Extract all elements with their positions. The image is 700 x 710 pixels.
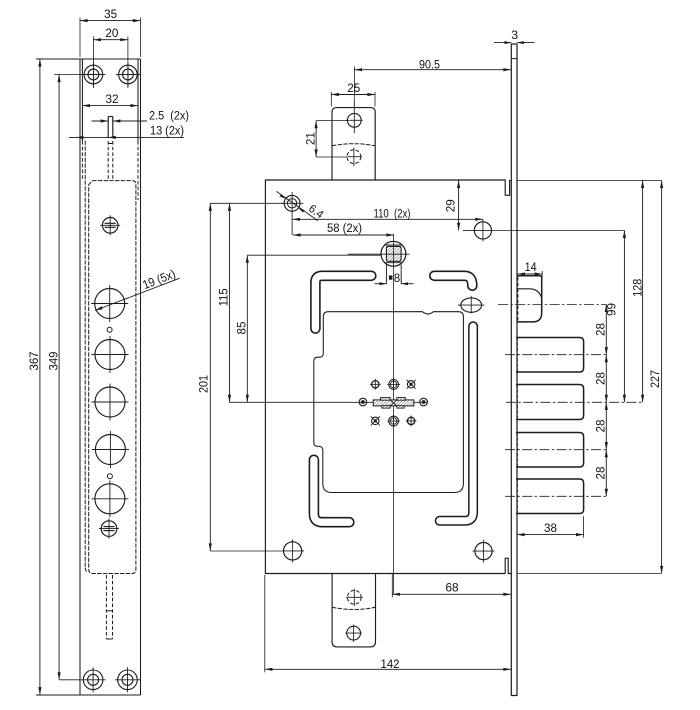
svg-text:28: 28 [594, 419, 608, 432]
svg-text:85: 85 [234, 321, 248, 334]
dimension square 8 of follower [375, 273, 414, 285]
deadbolt 3 [517, 433, 584, 468]
small pin hole upper [107, 327, 112, 332]
svg-text:28: 28 [594, 323, 608, 336]
svg-text:58 (2x): 58 (2x) [327, 221, 362, 235]
lower fixing screw with slot [99, 519, 119, 539]
hole 3 of 5 (d19) [92, 384, 129, 421]
dimension 85 [234, 255, 380, 402]
key plate screw top-left [370, 379, 381, 390]
dimension 90.5 [354, 57, 511, 97]
guide pin ellipse right [458, 296, 485, 313]
key cam hatched [373, 398, 414, 409]
case screw bottom-left [283, 539, 304, 562]
svg-text:38: 38 [544, 521, 557, 535]
dimension 201 [196, 203, 284, 551]
hole 4 of 5 (d19) [92, 431, 129, 468]
dimension 38 [517, 516, 584, 538]
svg-text:20: 20 [105, 26, 118, 40]
svg-text:68: 68 [446, 580, 459, 594]
svg-text:8: 8 [394, 273, 400, 285]
bottom mounting tab of case [332, 574, 375, 647]
follower vertical centreline [393, 234, 395, 594]
dimension 3 forend thickness [494, 28, 535, 44]
spring strip bottom-right [440, 326, 473, 521]
top tab bend line (hidden) [332, 144, 375, 146]
bottom screw hole left [81, 667, 106, 692]
deadbolt 2 [517, 385, 584, 420]
small pin hole lower [107, 474, 112, 479]
svg-text:13 (2x): 13 (2x) [150, 124, 184, 138]
dimension 227 [517, 180, 663, 573]
dimension 20 [93, 26, 128, 88]
label 6.4 [306, 203, 326, 222]
bottom tab hole lower [345, 625, 362, 642]
bottom tab bend line (hidden) [332, 607, 375, 609]
svg-text:29: 29 [444, 199, 458, 212]
key plate screw top-right [407, 380, 416, 389]
hole 1 of 5 (d19) [91, 285, 128, 322]
bottom stud tail on faceplate (hidden) [106, 575, 112, 639]
bottom tab hole upper (hidden) [346, 589, 363, 607]
dimension 2.5 (2x) with leader [92, 109, 190, 123]
spring strip top-left [315, 276, 371, 329]
svg-text:21: 21 [303, 132, 317, 145]
svg-text:142: 142 [381, 657, 400, 671]
key pivot left [359, 398, 367, 406]
svg-text:99: 99 [605, 303, 619, 316]
dimension 349 [47, 75, 84, 680]
top tab hole lower (hidden) [347, 148, 362, 167]
forend plate edge view (3mm) [511, 44, 517, 696]
lock body hidden outline (dashed) behind faceplate [85, 141, 136, 574]
key plate screw bottom-mid [387, 415, 400, 428]
spring strip bottom-left [314, 460, 349, 522]
svg-text:28: 28 [594, 466, 608, 479]
top mounting tab of case [332, 108, 375, 180]
dimension 21 [303, 121, 347, 157]
key pivot right [420, 398, 428, 406]
dimension 25 [331, 81, 375, 107]
svg-text:115: 115 [216, 288, 230, 306]
svg-text:201: 201 [196, 375, 210, 393]
top screw hole left [82, 63, 106, 87]
upper fixing screw with slot [100, 215, 120, 235]
svg-text:25: 25 [347, 81, 360, 95]
dimension 29 [444, 180, 461, 230]
top tab hole upper [346, 98, 363, 134]
svg-text:28: 28 [594, 372, 608, 385]
inner cover plate outline [314, 312, 464, 493]
faceplate front view outline [36, 59, 141, 695]
key plate screw bottom-left [371, 416, 380, 425]
svg-text:90.5: 90.5 [419, 57, 440, 71]
svg-text:110 (2x): 110 (2x) [374, 206, 411, 220]
top stud tab on faceplate [108, 117, 113, 181]
deadbolt 1 [517, 338, 584, 373]
deadbolt 4 centreline [505, 495, 606, 497]
label 19 (5x) with leader [95, 267, 180, 311]
svg-text:14: 14 [525, 260, 537, 274]
key plate screw top-mid [387, 378, 400, 391]
cylinder fixing hole top-left (M6.4) with leader [276, 191, 318, 235]
svg-text:32: 32 [106, 92, 119, 106]
latch bolt [517, 276, 541, 322]
case hole top-right [463, 219, 494, 241]
case screw bottom-right [472, 540, 494, 563]
dimension 367 [27, 59, 42, 695]
lock case outline [265, 180, 511, 574]
dimension 13 (2x) line [69, 124, 184, 140]
spindle follower hub [381, 241, 406, 284]
horizontal centreline through key [230, 254, 643, 402]
hole 5 of 5 (d19) [91, 480, 128, 517]
dimension 99 [494, 230, 626, 402]
deadbolt 4 [517, 479, 584, 514]
svg-text:227: 227 [648, 370, 662, 388]
deadbolt 1 centreline [505, 354, 606, 356]
latch centreline [498, 303, 606, 305]
svg-text:3: 3 [511, 28, 518, 42]
svg-text:367: 367 [27, 351, 41, 370]
bottom screw hole right [115, 667, 140, 692]
dimension 142 [265, 575, 511, 672]
dimension 32 [82, 92, 138, 141]
dimension 35 [80, 7, 141, 57]
key plate screw bottom-right [406, 416, 417, 427]
dimension 115 [216, 203, 231, 402]
top screw hole right [116, 63, 140, 87]
svg-text:349: 349 [47, 351, 61, 370]
svg-text:35: 35 [104, 7, 117, 21]
svg-text:2.5 (2x): 2.5 (2x) [149, 109, 189, 123]
dimension 128 [517, 180, 662, 402]
dimension 110 (2x) [292, 206, 483, 221]
hole 2 of 5 (d19) [92, 336, 129, 373]
svg-text:128: 128 [630, 279, 644, 297]
dimension 68 [392, 574, 511, 597]
spring strip top-right [434, 276, 472, 286]
dimension 14 [517, 260, 542, 277]
deadbolt 3 centreline [505, 449, 606, 451]
dimension 58 (2x) [293, 221, 394, 237]
dimension chain 28 x4 [594, 304, 608, 496]
